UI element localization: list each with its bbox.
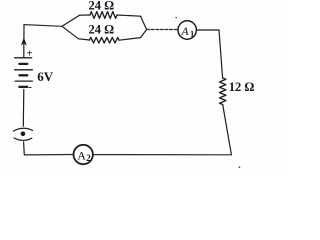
ammeter A2: [74, 145, 93, 164]
battery B1 plate long 2: [15, 69, 33, 71]
svg-text:24 Ω: 24 Ω: [89, 23, 115, 37]
speck bottom right: [239, 166, 241, 168]
resistor R3 12 ohm: [220, 78, 226, 105]
wire A1 to top-right corner: [197, 29, 219, 31]
svg-text:A: A: [77, 148, 86, 162]
speck near A1: [175, 17, 177, 19]
svg-text:6V: 6V: [37, 69, 54, 84]
node merge (right junction of parallel resistors): [141, 16, 147, 37]
battery B1 plate short 3: [19, 86, 27, 88]
battery B1 plate short 2: [19, 74, 27, 76]
ammeter A1: [178, 21, 196, 39]
label 24 ohm (upper): [89, 0, 115, 13]
wire lower branch left stub: [79, 39, 90, 40]
battery plus sign: [27, 49, 33, 60]
wire upper branch left stub: [80, 14, 91, 16]
svg-text:2: 2: [86, 153, 91, 163]
battery minus sign: [28, 81, 32, 93]
wire top-left horizontal: [24, 25, 62, 27]
battery B1 plate long 3: [15, 80, 32, 82]
wire left vertical bottom corner: [23, 142, 26, 155]
plug key dot: [21, 132, 26, 137]
resistor R2 24 ohm (lower): [90, 37, 120, 43]
label A2: [77, 148, 91, 163]
svg-text:+: +: [27, 49, 33, 60]
battery B1 plate long 1: [15, 57, 32, 59]
label A1: [181, 26, 195, 39]
plug key (circle-dot) top arc: [14, 128, 33, 131]
wire right vertical upper: [219, 30, 223, 78]
svg-text:-: -: [28, 81, 32, 93]
resistor R1 24 ohm (upper): [90, 12, 117, 19]
wire merge to ammeter A1: [147, 29, 178, 31]
wire upper branch right stub: [117, 15, 141, 16]
wire left vertical (battery to top corner): [23, 25, 25, 57]
label 24 ohm (lower): [89, 23, 115, 37]
wire right vertical lower: [223, 105, 232, 155]
plug key (circle-dot) bottom arc: [14, 138, 32, 141]
svg-text:12 Ω: 12 Ω: [229, 80, 255, 94]
svg-text:1: 1: [190, 29, 194, 39]
svg-text:A: A: [181, 26, 190, 38]
wire battery to plug key: [22, 90, 25, 127]
node split (left junction of parallel resistors): [62, 15, 80, 39]
label 12 ohm: [229, 80, 255, 94]
svg-text:24 Ω: 24 Ω: [89, 0, 115, 13]
current direction arrow: [21, 37, 27, 45]
wire lower branch right stub: [119, 38, 141, 41]
wire bottom right: [93, 154, 232, 156]
wire bottom left: [24, 154, 73, 156]
label 6V: [37, 69, 54, 84]
battery B1 plate short 1: [19, 63, 27, 65]
